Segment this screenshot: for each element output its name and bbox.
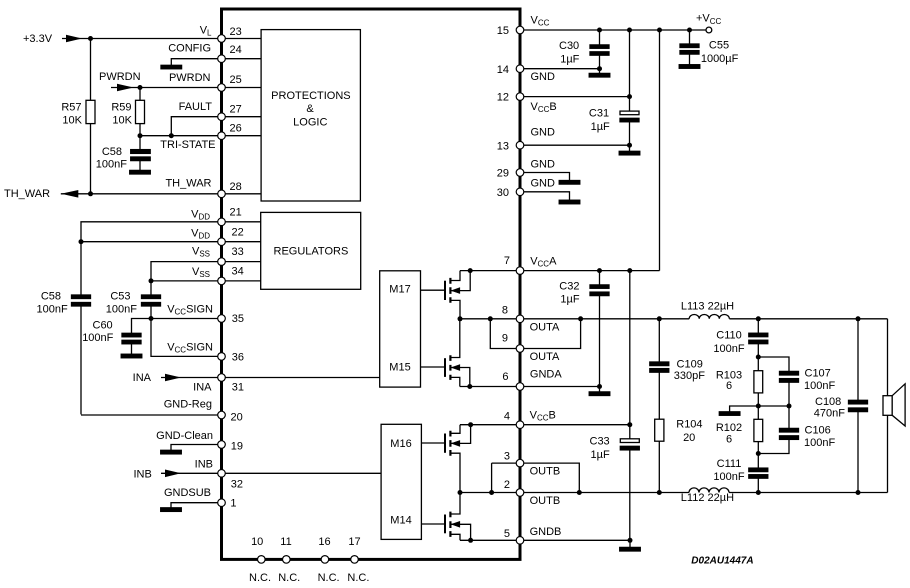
svg-text:6: 6 [726, 434, 732, 446]
label C109 330pF [674, 358, 705, 382]
svg-text:PWRDN: PWRDN [99, 71, 141, 83]
pin number 31 [232, 382, 244, 394]
pin name INB [195, 459, 213, 471]
inductor L113 [689, 314, 729, 318]
wire OUTA line pins 8 [460, 318, 888, 320]
svg-text:C106: C106 [805, 425, 831, 437]
wire pin14 GND to C30 [524, 68, 600, 70]
speaker LS [883, 319, 905, 493]
svg-text:C109: C109 [677, 358, 703, 370]
pin number 21 [230, 207, 242, 219]
ground C30 [589, 73, 610, 77]
label INA external [133, 372, 152, 384]
svg-text:10K: 10K [112, 115, 132, 127]
pin number 36 [232, 352, 244, 364]
label TH_WAR external [4, 188, 50, 200]
svg-text:M16: M16 [390, 438, 411, 450]
svg-text:INA: INA [193, 382, 212, 394]
svg-text:2: 2 [504, 479, 510, 491]
svg-text:VCCB: VCCB [531, 101, 557, 114]
svg-text:C31: C31 [589, 107, 609, 119]
label C55 1000uF [701, 40, 739, 65]
pin number 7 [504, 255, 510, 267]
wire rail riser to pin12 line [629, 30, 631, 97]
pin name GND 13 [531, 127, 556, 139]
driver block M16/M14 [381, 424, 421, 539]
wire pin27 FAULT to logic block [225, 116, 261, 118]
pin number 15 [497, 25, 509, 37]
wire pin31 INA to driver block [225, 377, 380, 379]
transistor M17 [421, 271, 471, 319]
svg-text:100nF: 100nF [82, 332, 113, 344]
wire pin23 VL to logic block [225, 38, 261, 40]
svg-text:C32: C32 [559, 281, 579, 293]
svg-text:VCC: VCC [531, 15, 550, 28]
label N.C. x4 [249, 572, 369, 584]
svg-text:R57: R57 [61, 102, 81, 114]
svg-text:OUTA: OUTA [530, 322, 560, 334]
pin circles bottom edge N.C. [258, 556, 359, 564]
transistor M15 [421, 319, 470, 387]
svg-text:33: 33 [232, 246, 244, 258]
svg-text:4: 4 [504, 411, 510, 423]
wire pin34 VSS to regulators block [225, 280, 261, 282]
capacitor C30 [590, 30, 609, 73]
svg-text:6: 6 [502, 371, 508, 383]
svg-text:20: 20 [231, 411, 243, 423]
svg-text:GND: GND [531, 127, 556, 139]
ground stub mid filter [719, 406, 758, 415]
svg-text:R102: R102 [716, 422, 742, 434]
pin name VSS 33 [192, 246, 210, 259]
ground C58 [130, 170, 151, 174]
label R59 10K [111, 102, 132, 127]
label C58 100nF (VDD) [36, 291, 67, 316]
pin name VDD 22 [191, 228, 210, 241]
pin number 28 [230, 181, 242, 193]
label R103 6 [716, 370, 742, 392]
capacitor C58 (under R59) [131, 136, 151, 171]
wire pin9 OUTA loop left [490, 319, 516, 349]
PROTECTIONS & LOGIC block [261, 30, 360, 201]
pin number 27 [230, 104, 242, 116]
label C31 1uF [589, 107, 610, 133]
resistor R103 [754, 357, 763, 406]
pin name VccB 4 [530, 410, 556, 423]
arrow INA [165, 374, 181, 382]
svg-text:C58: C58 [41, 291, 61, 303]
label R104 20 [676, 419, 702, 444]
svg-text:10K: 10K [62, 115, 82, 127]
svg-text:M17: M17 [389, 284, 410, 296]
svg-text:C108: C108 [815, 396, 841, 408]
wire pin22 VDD to regulators block [225, 241, 261, 243]
label C32 1uF [559, 281, 580, 306]
pin name GNDSUB [164, 487, 211, 499]
capacitor C32 [590, 271, 609, 387]
svg-text:VCCSIGN: VCCSIGN [167, 303, 213, 316]
pin number 26 [230, 123, 242, 135]
svg-text:100nF: 100nF [713, 471, 744, 483]
pin circles right edge [516, 26, 524, 544]
label L112 22uH [681, 492, 734, 504]
svg-text:OUTB: OUTB [530, 495, 561, 507]
svg-text:OUTB: OUTB [530, 466, 561, 478]
svg-text:31: 31 [232, 382, 244, 394]
wire FAULT branch down to TRI-STATE [171, 117, 218, 136]
wire pin13 GND to C31 [524, 144, 630, 146]
wire TH_WAR output line [61, 193, 218, 195]
label +VCC [696, 13, 722, 26]
pin name GND 29 [531, 159, 556, 171]
capacitor C53 [142, 295, 161, 319]
pin number 2 [504, 479, 510, 491]
wire pin28 TH_WAR to logic block [225, 193, 261, 195]
pin name OUTA 9 [530, 351, 560, 363]
svg-text:100nF: 100nF [106, 304, 137, 316]
label R57 10K [61, 102, 82, 127]
svg-text:CONFIG: CONFIG [168, 42, 211, 54]
svg-text:GNDA: GNDA [530, 369, 562, 381]
pin number 30 [497, 187, 509, 199]
resistor R57 [86, 39, 95, 194]
svg-text:7: 7 [504, 255, 510, 267]
wire pin29 GND stub [524, 173, 570, 181]
svg-text:9: 9 [502, 333, 508, 345]
driver block M17/M15 [380, 271, 421, 387]
svg-text:6: 6 [726, 380, 732, 392]
wire pin30 GND stub [524, 192, 570, 200]
pin name OUTA 8 [530, 322, 560, 334]
pin name INA [193, 382, 212, 394]
svg-text:24: 24 [230, 44, 242, 56]
pin name GND-Clean [156, 430, 213, 442]
capacitor C110 [749, 319, 768, 357]
pin number 23 [230, 26, 242, 38]
svg-text:+3.3V: +3.3V [23, 33, 53, 45]
wire VccA to VccB riser [629, 271, 631, 425]
transistor M16 [421, 425, 470, 493]
pin name VL [200, 25, 212, 38]
svg-text:VL: VL [200, 25, 212, 38]
svg-text:L113 22µH: L113 22µH [681, 301, 734, 313]
wire VSS left riser [151, 262, 218, 295]
pin name GND 14 [531, 71, 556, 83]
label M14 [390, 515, 411, 527]
svg-text:29: 29 [497, 168, 509, 180]
label R102 6 [716, 422, 742, 446]
svg-text:34: 34 [232, 266, 244, 278]
svg-text:GND: GND [531, 178, 556, 190]
pin number 13 [497, 141, 509, 153]
pin number 14 [497, 64, 509, 76]
svg-text:GND-Clean: GND-Clean [156, 430, 213, 442]
svg-text:C30: C30 [559, 40, 579, 52]
svg-text:REGULATORS: REGULATORS [274, 246, 349, 258]
capacitor C58 (VDD decoupling) [72, 295, 91, 414]
pin number 10 [251, 536, 263, 548]
label C108 470nF [814, 396, 845, 420]
capacitor C107 [758, 371, 798, 406]
svg-text:32: 32 [231, 478, 243, 490]
svg-text:VCCSIGN: VCCSIGN [167, 342, 213, 355]
label C33 1uF [590, 436, 610, 461]
wire C107 loop [758, 357, 789, 371]
svg-text:N.C.: N.C. [249, 572, 271, 584]
pin number 4 [504, 411, 510, 423]
pin name OUTB 2 [530, 495, 561, 507]
svg-text:GNDSUB: GNDSUB [164, 487, 211, 499]
svg-text:D02AU1447A: D02AU1447A [691, 555, 753, 566]
pin number 32 [231, 478, 243, 490]
wire OUTB line pin 2 [460, 492, 888, 494]
pin number 34 [232, 266, 244, 278]
wire C60 branch [132, 319, 152, 334]
capacitor C109 [650, 319, 669, 419]
pin name PWRDN [169, 72, 211, 84]
capacitor C111 [749, 454, 768, 493]
svg-text:C107: C107 [805, 368, 831, 380]
pin name GND-Reg [164, 398, 212, 410]
pin name VccSIGN 36 [167, 342, 213, 355]
pin name TH_WAR [165, 178, 211, 190]
wire pin9 OUTA loop right [524, 319, 581, 349]
svg-text:INB: INB [133, 469, 151, 481]
ground pin29 [559, 181, 580, 185]
svg-text:1µF: 1µF [591, 121, 610, 133]
svg-text:VSS: VSS [192, 266, 210, 279]
capacitor C106 [758, 406, 798, 454]
ground GNDB/C33 [620, 540, 641, 551]
svg-text:100nF: 100nF [36, 304, 67, 316]
svg-text:M15: M15 [389, 361, 410, 373]
pin number 6 [502, 371, 508, 383]
svg-text:GND: GND [531, 159, 556, 171]
svg-text:GNDB: GNDB [530, 526, 562, 538]
svg-text:C110: C110 [716, 330, 741, 342]
pin name CONFIG [168, 42, 211, 54]
label C60 100nF [82, 319, 113, 344]
label M16 [390, 438, 411, 450]
svg-text:5: 5 [504, 528, 510, 540]
inductor L112 [689, 488, 729, 493]
wire pin36 riser from VccSIGN node [151, 319, 218, 357]
pin number 11 [280, 536, 291, 548]
svg-text:100nF: 100nF [804, 380, 835, 392]
wire INB input to pin 32 [161, 472, 218, 474]
arrow INB [165, 470, 181, 478]
wire pin25 PWRDN to logic block [225, 87, 261, 89]
capacitor C55 [680, 30, 699, 65]
pin name VccB 12 [531, 101, 557, 114]
label C110 100nF [713, 330, 744, 356]
svg-text:27: 27 [230, 104, 242, 116]
wire pin3 OUTB loop left [492, 463, 517, 492]
transistor M14 [421, 493, 470, 541]
wire TRI-STATE left segment to R59/C58 node [140, 135, 218, 137]
ground stub on CONFIG line [161, 59, 218, 69]
svg-text:35: 35 [232, 313, 244, 325]
svg-text:N.C.: N.C. [278, 572, 300, 584]
svg-text:C111: C111 [717, 458, 742, 470]
wire INA input to pin 31 [161, 377, 218, 379]
wire VDD rail left riser [81, 222, 218, 295]
REGULATORS block [261, 212, 361, 289]
label C58 100nF [96, 146, 127, 171]
svg-text:M14: M14 [390, 515, 411, 527]
wire pin1 GNDSUB stub [171, 503, 218, 508]
svg-text:TH_WAR: TH_WAR [4, 188, 50, 200]
pin number 25 [230, 74, 242, 86]
svg-text:TRI-STATE: TRI-STATE [160, 139, 215, 151]
svg-text:3: 3 [504, 451, 510, 463]
ground GND-Clean [161, 450, 182, 454]
label M17 [389, 284, 410, 296]
pin number 5 [504, 528, 510, 540]
label PROTECTIONS & LOGIC [271, 90, 350, 128]
svg-text:OUTA: OUTA [530, 351, 560, 363]
pin number 24 [230, 44, 242, 56]
capacitor C33 (polarized) [620, 425, 639, 541]
svg-text:R104: R104 [676, 419, 702, 431]
svg-text:17: 17 [348, 536, 360, 548]
pin number 19 [231, 440, 243, 452]
svg-text:N.C.: N.C. [347, 572, 369, 584]
pin number 22 [232, 227, 244, 239]
svg-text:36: 36 [232, 352, 244, 364]
pin number 9 [502, 333, 508, 345]
pin number 12 [497, 92, 509, 104]
svg-text:1µF: 1µF [560, 294, 579, 306]
pin name GNDB 5 [530, 526, 562, 538]
svg-text:L112 22µH: L112 22µH [681, 492, 734, 504]
svg-text:26: 26 [230, 123, 242, 135]
arrow PWRDN [117, 84, 134, 92]
wire pin12 VccB to C31 [524, 96, 630, 98]
svg-text:470nF: 470nF [814, 408, 845, 420]
pin name VccSIGN 35 [167, 303, 213, 316]
wire pin32 INB to driver block [225, 472, 381, 474]
pin name VSS 34 [192, 266, 210, 279]
arrow TH_WAR (points left) [61, 190, 78, 198]
pin number 8 [502, 305, 508, 317]
wire pin35 VccSIGN [151, 318, 218, 320]
terminal +VCC [706, 27, 712, 33]
label +3.3V [23, 33, 53, 45]
wire pin7 VccA line [460, 270, 660, 272]
svg-text:100nF: 100nF [96, 159, 127, 171]
svg-text:N.C.: N.C. [318, 572, 340, 584]
ground GNDSUB [161, 508, 182, 512]
svg-text:21: 21 [230, 207, 242, 219]
svg-text:VCCB: VCCB [530, 410, 556, 423]
svg-text:28: 28 [230, 181, 242, 193]
ground pin30 [559, 200, 580, 204]
label C53 100nF [106, 291, 137, 316]
svg-text:TH_WAR: TH_WAR [165, 178, 211, 190]
svg-text:+VCC: +VCC [696, 13, 722, 26]
svg-text:100nF: 100nF [804, 437, 835, 449]
wire pin33 VSS to regulators block [225, 261, 261, 263]
svg-text:PWRDN: PWRDN [169, 72, 211, 84]
svg-text:R59: R59 [111, 102, 131, 114]
svg-text:13: 13 [497, 141, 509, 153]
pin number 1 [230, 497, 236, 509]
svg-text:19: 19 [231, 440, 243, 452]
label REGULATORS [274, 246, 349, 258]
svg-text:VSS: VSS [192, 246, 210, 259]
svg-text:C33: C33 [590, 436, 610, 448]
capacitor C108 [849, 319, 868, 493]
arrow +3.3V [66, 35, 82, 43]
wire pin19 GND-Clean stub [171, 445, 218, 451]
wire pin5 GNDB line [460, 539, 630, 541]
wire PWRDN input to pin 25 [111, 87, 218, 89]
label C106 100nF [804, 425, 835, 449]
pin number 35 [232, 313, 244, 325]
svg-text:330pF: 330pF [674, 370, 705, 382]
pin name GNDA 6 [530, 369, 562, 381]
wire pin24 CONFIG to logic block [225, 58, 261, 60]
svg-text:16: 16 [318, 536, 330, 548]
label PWRDN external [99, 71, 141, 83]
svg-text:30: 30 [497, 187, 509, 199]
svg-text:1µF: 1µF [560, 54, 579, 66]
ground C60 [121, 354, 142, 358]
wire pin26 TRI-STATE to logic block [225, 135, 261, 137]
svg-text:15: 15 [497, 25, 509, 37]
pin number 3 [504, 451, 510, 463]
svg-text:C55: C55 [709, 40, 729, 52]
svg-text:GND-Reg: GND-Reg [164, 398, 212, 410]
pin number 20 [231, 411, 243, 423]
label M15 [389, 361, 410, 373]
svg-text:8: 8 [502, 305, 508, 317]
resistor R104 [655, 419, 664, 492]
svg-text:14: 14 [497, 64, 509, 76]
capacitor C60 [122, 333, 141, 354]
wire pin3 OUTB loop right [524, 463, 580, 492]
pin name OUTB 3 [530, 466, 561, 478]
svg-text:10: 10 [251, 536, 263, 548]
svg-text:FAULT: FAULT [179, 101, 213, 113]
wire pin15 VCC to +VCC rail [524, 29, 706, 31]
wire pin6 GNDA line [460, 386, 600, 388]
pin name GND 30 [531, 178, 556, 190]
svg-text:VCCA: VCCA [530, 255, 557, 268]
svg-text:LOGIC: LOGIC [293, 116, 327, 128]
pin name TRI-STATE [160, 139, 215, 151]
svg-text:12: 12 [497, 92, 509, 104]
label C111 100nF [713, 458, 744, 483]
label C30 1uF [559, 40, 580, 65]
svg-text:100nF: 100nF [713, 343, 744, 355]
capacitor C31 (polarized) [620, 97, 639, 152]
pin name VDD 21 [191, 208, 210, 221]
pin number 29 [497, 168, 509, 180]
ground GNDA/C32 [589, 387, 610, 396]
svg-text:GND: GND [531, 71, 556, 83]
pin circles left edge [218, 35, 226, 507]
label C107 100nF [804, 368, 835, 392]
wire pin21 VDD to regulators block [225, 221, 261, 223]
svg-text:1µF: 1µF [591, 449, 610, 461]
ground C55 [679, 65, 700, 69]
pin number 33 [232, 246, 244, 258]
svg-text:C58: C58 [102, 146, 122, 158]
label INB external [133, 469, 151, 481]
svg-text:&: & [306, 103, 314, 115]
